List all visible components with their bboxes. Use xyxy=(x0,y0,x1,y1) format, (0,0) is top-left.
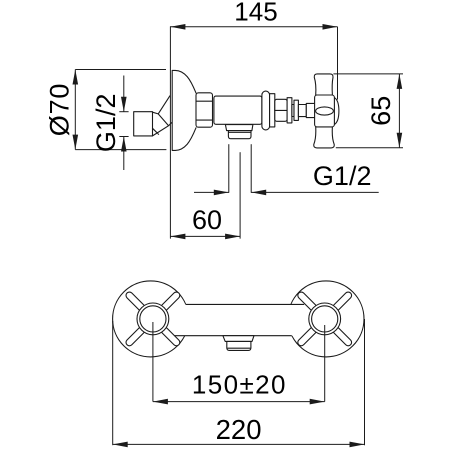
handle hub dome arc xyxy=(334,97,339,124)
right hub leader xyxy=(324,325,326,402)
dim 70 bottom extension xyxy=(75,149,166,151)
stem adapter block xyxy=(306,103,316,117)
hex nut facet lines xyxy=(196,101,213,120)
left spoke SW xyxy=(125,326,146,347)
left spoke SE xyxy=(160,326,181,347)
dim G1/2 inlet lower line xyxy=(123,137,125,171)
wall flange bell (escutcheon, side profile) xyxy=(172,70,196,150)
arrow G1/2 inlet top xyxy=(121,97,127,112)
dim 220 right extension xyxy=(364,319,366,445)
svg-text:220: 220 xyxy=(216,414,262,445)
outlet aerator inner line xyxy=(228,347,251,349)
svg-text:Ø70: Ø70 xyxy=(45,83,75,136)
svg-text:G1/2: G1/2 xyxy=(313,161,372,191)
handle hub xyxy=(315,95,335,127)
arrow 220 left xyxy=(113,442,128,448)
dim 70 line xyxy=(74,70,76,150)
svg-text:65: 65 xyxy=(366,96,396,126)
handle top spoke xyxy=(314,74,333,95)
right spoke SW xyxy=(296,326,317,347)
bonnet ring B xyxy=(287,98,292,123)
body bar top edge xyxy=(186,303,304,305)
left handle spokes xyxy=(125,291,182,348)
dim 60 line xyxy=(170,235,240,237)
tick at G1/2 inlet top arrow tip xyxy=(119,111,128,113)
bonnet hex facet line xyxy=(275,109,287,111)
handle bottom spoke xyxy=(314,127,334,148)
dim 65 top extension xyxy=(333,73,403,75)
inlet square fitting xyxy=(134,112,153,136)
arrow 60 left xyxy=(170,234,185,240)
arrow 70 bottom xyxy=(73,135,79,150)
outlet centre extension line xyxy=(239,153,241,239)
bonnet ring C xyxy=(294,100,298,120)
dim 145 line xyxy=(170,26,337,28)
outlet trapezoid under body xyxy=(225,125,253,131)
svg-text:145: 145 xyxy=(234,0,277,27)
dim 220 line xyxy=(113,443,365,445)
svg-text:150±20: 150±20 xyxy=(192,370,287,400)
arrow 60 right xyxy=(225,234,240,240)
left escutcheon circle xyxy=(113,281,189,357)
bonnet ring A xyxy=(270,94,275,127)
valve stem xyxy=(298,105,306,117)
svg-text:60: 60 xyxy=(192,205,222,235)
handle hub ellipse xyxy=(316,107,334,115)
arrow G1/2 outlet right xyxy=(251,190,266,196)
left spoke NW xyxy=(125,291,146,312)
right spoke NE xyxy=(331,291,352,312)
body bar mask xyxy=(153,304,325,335)
left hub outer circle xyxy=(137,303,169,335)
left hub leader xyxy=(152,322,154,402)
dim G1/2 inlet upper line xyxy=(123,76,125,112)
arrow 145 right xyxy=(323,24,338,30)
right handle spokes xyxy=(296,291,353,348)
mixer body cylinder xyxy=(214,96,262,124)
arrow 65 top xyxy=(397,74,403,89)
body bar bottom edge xyxy=(175,335,291,337)
tick at G1/2 inlet bottom arrow tip xyxy=(119,136,128,138)
dim 65 line xyxy=(398,74,400,148)
dim G1/2 outlet left leader xyxy=(194,191,229,193)
outlet aerator nozzle xyxy=(228,131,251,139)
left hub inner circle xyxy=(140,306,166,332)
arrow 220 right xyxy=(350,442,365,448)
outlet trapezoid front xyxy=(223,336,254,342)
arrow G1/2 outlet left xyxy=(214,190,229,196)
right escutcheon circle xyxy=(288,281,364,357)
hex nut on flange xyxy=(196,93,213,127)
left spoke NE xyxy=(160,291,181,312)
dim 145 right extension xyxy=(337,27,339,100)
dim 65 bottom extension xyxy=(336,147,403,149)
inlet eccentric cone xyxy=(153,96,172,136)
arrow 150 left xyxy=(153,399,168,405)
arrow 70 top xyxy=(73,70,79,85)
stem between rings xyxy=(292,105,294,117)
collar ring capsule xyxy=(262,91,270,130)
outlet left edge extension line xyxy=(228,145,230,193)
outlet right edge extension line xyxy=(250,145,252,193)
dim 220 left extension xyxy=(112,321,114,445)
arrow 150 right xyxy=(310,399,325,405)
dim 70 top extension xyxy=(75,69,166,71)
right spoke SE xyxy=(331,326,352,347)
arrow G1/2 inlet bottom xyxy=(121,137,127,152)
wall face / extension line xyxy=(169,27,171,239)
dim G1/2 outlet right leader xyxy=(251,191,379,193)
right spoke NW xyxy=(296,291,317,312)
bonnet hex xyxy=(275,99,287,121)
svg-text:G1/2: G1/2 xyxy=(91,94,121,153)
dim 150 line xyxy=(153,401,325,403)
right hub inner circle xyxy=(312,306,338,332)
arrow 65 bottom xyxy=(397,133,403,148)
arrow 145 left xyxy=(170,24,185,30)
aerator joint line xyxy=(228,131,251,133)
outlet aerator front xyxy=(227,341,251,350)
right hub outer circle xyxy=(309,303,341,335)
